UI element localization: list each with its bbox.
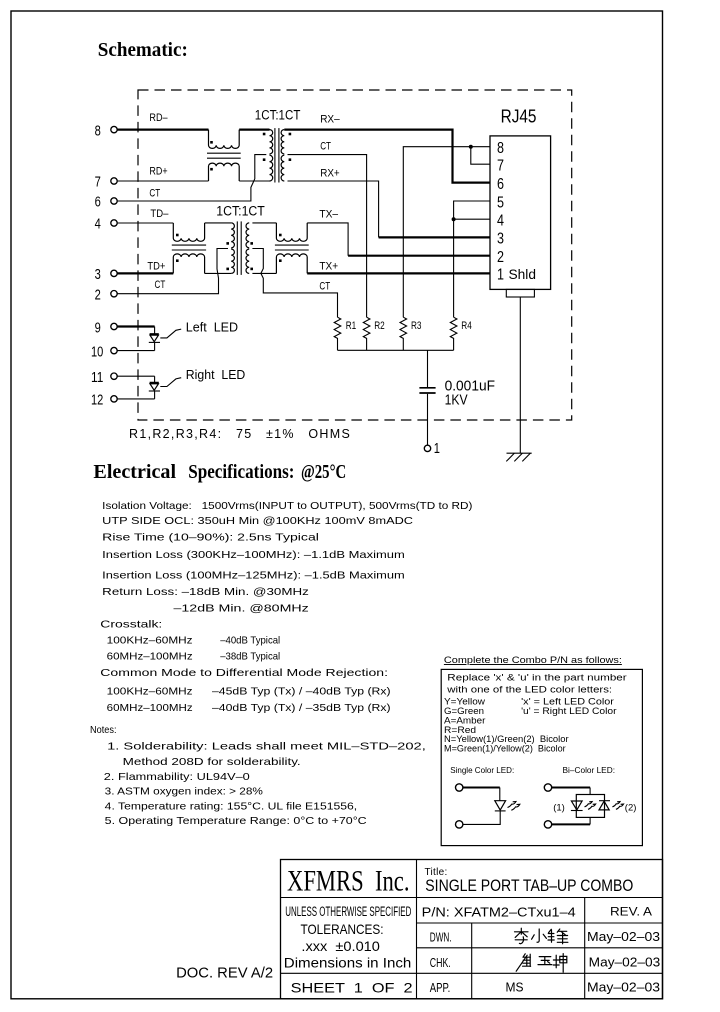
- junction dot pins7-8: [469, 145, 473, 149]
- svg-text:CT: CT: [319, 280, 330, 292]
- svg-text:R4: R4: [461, 320, 472, 332]
- CHK row: [430, 955, 660, 970]
- svg-text:P/N: XFATM2–CTxu1–4: P/N: XFATM2–CTxu1–4: [422, 905, 576, 920]
- svg-text:–12dB Min. @80MHz: –12dB Min. @80MHz: [174, 604, 309, 615]
- wire TD+ pin3 to choke T3: [117, 272, 173, 274]
- pin 9: [95, 321, 118, 337]
- junction dot pins4-5: [452, 217, 456, 221]
- svg-text:RX–: RX–: [320, 113, 340, 125]
- svg-text:2. Flammability: UL94V–0: 2. Flammability: UL94V–0: [104, 772, 250, 783]
- wire T4 secondary CT to R1 column (with crossover jog): [252, 249, 337, 318]
- LED D2 Right LED: [149, 376, 160, 399]
- svg-text:Specifications:: Specifications:: [188, 461, 294, 483]
- common-mode choke T3 (TX) core: [172, 245, 206, 250]
- resistor R3 75 ohm: [400, 317, 422, 350]
- wire pin6 CT to T2 primary centre tap (with crossover jog): [117, 155, 266, 201]
- svg-text:R3: R3: [411, 320, 422, 332]
- common-mode choke T3 (TX) upper winding: [173, 223, 204, 241]
- svg-text:SINGLE PORT TAB–UP COMBO: SINGLE PORT TAB–UP COMBO: [425, 876, 633, 895]
- resistor R4 75 ohm: [450, 317, 472, 350]
- svg-text:(1): (1): [553, 802, 565, 813]
- wire RX- : T2 secondary top to RJ45 pin6: [284, 130, 490, 183]
- svg-text:CHK.: CHK.: [430, 956, 451, 970]
- svg-text:–40dB Typ (Tx) / –35dB Typ (Rx: –40dB Typ (Tx) / –35dB Typ (Rx): [212, 703, 391, 714]
- svg-text:REV. A: REV. A: [610, 904, 652, 918]
- svg-text:TD–: TD–: [150, 208, 169, 220]
- svg-text:UTP SIDE OCL: 350uH Min @100KH: UTP SIDE OCL: 350uH Min @100KHz 100mV 8m…: [102, 516, 413, 527]
- RJ45 connector J1 body: [490, 136, 551, 290]
- wire choke T1 to transformer T2 primary top: [239, 129, 269, 131]
- svg-text:R2: R2: [374, 320, 385, 332]
- resistor R1 75 ohm: [334, 317, 356, 350]
- svg-text:8: 8: [497, 140, 504, 157]
- chassis ground symbol: [506, 453, 531, 461]
- svg-text:7: 7: [95, 175, 101, 191]
- svg-text:1: 1: [497, 267, 504, 284]
- svg-text:RX+: RX+: [320, 168, 340, 180]
- wire shield to chassis ground: [519, 297, 521, 453]
- svg-text:4: 4: [95, 217, 101, 233]
- terminal node 1: [424, 441, 440, 457]
- svg-text:Return Loss: –18dB Min. @30MHz: Return Loss: –18dB Min. @30MHz: [102, 587, 309, 598]
- svg-text:R1: R1: [346, 320, 357, 332]
- wire pin11 to Right LED anode: [117, 375, 154, 377]
- svg-text:APP.: APP.: [430, 981, 451, 995]
- wire T4 secondary top to output choke T5: [252, 222, 276, 224]
- transformer T2 (RX) 1CT:1CT secondary winding: [281, 130, 284, 181]
- svg-text:1CT:1CT: 1CT:1CT: [255, 107, 301, 122]
- svg-text:5: 5: [497, 194, 504, 211]
- svg-text:100KHz–60MHz: 100KHz–60MHz: [107, 687, 193, 698]
- svg-text:May–02–03: May–02–03: [589, 955, 661, 969]
- svg-text:Left LED: Left LED: [186, 320, 238, 335]
- svg-text:4. Temperature rating: 155°C.: 4. Temperature rating: 155°C. UL file E1…: [105, 801, 358, 812]
- wire RX+ : T2 secondary bottom to RJ45 pin3: [288, 181, 379, 237]
- svg-text:May–02–03: May–02–03: [587, 930, 660, 944]
- svg-text:Insertion Loss (100MHz–125MHz): Insertion Loss (100MHz–125MHz): –1.5dB M…: [102, 571, 405, 582]
- svg-text:Schematic:: Schematic:: [98, 39, 188, 61]
- svg-text:RD+: RD+: [149, 165, 167, 177]
- module boundary dashed box: [138, 90, 572, 420]
- svg-text:Bi–Color LED:: Bi–Color LED:: [563, 765, 616, 775]
- svg-text:10: 10: [91, 344, 103, 360]
- wire RD+ pin7 to choke T1: [117, 180, 208, 182]
- svg-text:3. ASTM oxygen index: > 28%: 3. ASTM oxygen index: > 28%: [105, 787, 263, 798]
- svg-text:2: 2: [95, 287, 101, 303]
- svg-text:Method 208D for solderability.: Method 208D for solderability.: [123, 757, 301, 768]
- svg-text:100KHz–60MHz: 100KHz–60MHz: [107, 636, 193, 647]
- svg-text:60MHz–100MHz: 60MHz–100MHz: [107, 703, 193, 714]
- svg-text:XFMRS Inc.: XFMRS Inc.: [287, 865, 410, 898]
- svg-text:9: 9: [95, 321, 101, 337]
- transformer T4 (TX) 1CT:1CT primary winding: [231, 223, 234, 274]
- svg-text:4: 4: [497, 213, 504, 230]
- P/N row: [422, 904, 652, 919]
- svg-text:Common Mode to Differential Mo: Common Mode to Differential Mode Rejecti…: [100, 668, 388, 679]
- common-mode choke T1 (RX) lower winding: [209, 163, 240, 181]
- svg-text:1. Solderability: Leads shall: 1. Solderability: Leads shall meet MIL–S…: [107, 741, 426, 752]
- pin 7: [95, 175, 118, 191]
- transformer T2 (RX) 1CT:1CT core: [275, 128, 279, 182]
- wire pin2 CT to T4 primary centre tap (with crossover jog): [117, 249, 228, 294]
- svg-text:DWN.: DWN.: [430, 931, 452, 945]
- pin 12: [91, 393, 117, 409]
- svg-text:CT: CT: [320, 141, 331, 153]
- svg-text:Shld: Shld: [509, 266, 537, 282]
- svg-text:1CT:1CT: 1CT:1CT: [216, 204, 264, 219]
- svg-text:Single Color LED:: Single Color LED:: [450, 765, 514, 775]
- wire RX secondary CT to R2 column: [288, 155, 367, 318]
- common-mode choke T3 (TX) lower winding: [173, 254, 204, 274]
- svg-text:RD–: RD–: [149, 112, 168, 124]
- svg-text:Y=Yellow: Y=Yellow: [444, 697, 486, 707]
- common-mode choke T5 (TX output) lower winding: [276, 254, 307, 274]
- svg-text:6: 6: [497, 176, 504, 193]
- common-mode choke T1 (RX) polarity dots: [210, 141, 213, 171]
- signature DWN (Chinese): [515, 928, 568, 944]
- svg-text:UNLESS OTHERWISE SPECIFIED: UNLESS OTHERWISE SPECIFIED: [285, 904, 411, 919]
- svg-text:Electrical: Electrical: [93, 461, 176, 483]
- wire R3 column to RJ45 pins 7 and 8: [403, 147, 490, 318]
- svg-text:RJ45: RJ45: [501, 106, 537, 126]
- wire T4 secondary bottom to output choke T5: [252, 272, 276, 274]
- APP row: [430, 981, 660, 996]
- svg-text:1: 1: [434, 441, 440, 457]
- svg-text:12: 12: [91, 393, 103, 409]
- pin 11: [91, 370, 117, 386]
- capacitor C1 0.001uF 1KV: [419, 350, 435, 445]
- electrical specification text: [100, 501, 472, 714]
- svg-text:CT: CT: [155, 279, 166, 291]
- svg-text:SHEET 1 OF 2: SHEET 1 OF 2: [291, 980, 413, 996]
- wire TX- : choke T5 to RJ45 pin2: [307, 223, 348, 256]
- svg-text:M=Green(1)/Yellow(2) Bicolor: M=Green(1)/Yellow(2) Bicolor: [444, 744, 566, 754]
- wire pin9 to Left LED anode: [117, 325, 154, 327]
- svg-text:Isolation Voltage: 1500Vrms(: Isolation Voltage: 1500Vrms(INPUT to OUT…: [102, 501, 472, 512]
- svg-text:.xxx ±0.010: .xxx ±0.010: [301, 938, 380, 954]
- wire choke T1 to transformer T2 primary bottom: [239, 180, 269, 182]
- svg-text:6: 6: [95, 195, 101, 211]
- svg-text:11: 11: [91, 370, 103, 386]
- common-mode choke T5 (TX output) upper winding: [276, 223, 307, 241]
- svg-text:Notes:: Notes:: [90, 725, 117, 736]
- wire R4 column to RJ45 pins 4 and 5: [454, 201, 490, 317]
- svg-text:(2): (2): [625, 802, 637, 813]
- svg-text:Dimensions in Inch: Dimensions in Inch: [284, 955, 412, 971]
- title block frame: [281, 860, 663, 999]
- svg-text:TX–: TX–: [319, 208, 339, 220]
- transformer T4 (TX) 1CT:1CT polarity dots: [226, 242, 253, 270]
- bi-color LED symbol: [544, 784, 636, 828]
- RJ45 shield tab: [506, 289, 534, 297]
- pin 6: [95, 195, 118, 211]
- svg-text:Rise Time (10–90%): 2.5ns Typi: Rise Time (10–90%): 2.5ns Typical: [102, 532, 319, 543]
- title block left column text: [284, 904, 413, 996]
- transformer T2 (RX) 1CT:1CT polarity dots: [263, 133, 291, 161]
- svg-text:@25°C: @25°C: [301, 461, 346, 483]
- svg-text:CT: CT: [149, 188, 160, 200]
- pin 4: [95, 217, 118, 233]
- transformer T4 (TX) 1CT:1CT core: [237, 221, 241, 275]
- combo P/N instruction box: [441, 655, 642, 846]
- common-mode choke T5 (TX output) polarity dots: [279, 234, 282, 262]
- svg-text:Crosstalk:: Crosstalk:: [100, 620, 162, 631]
- leader line Right LED: [160, 378, 181, 387]
- svg-text:'x' = Left LED Color: 'x' = Left LED Color: [521, 697, 614, 707]
- common-mode choke T3 (TX) polarity dots: [176, 234, 179, 262]
- LED D1 Left LED: [149, 327, 160, 351]
- combo box text: [444, 673, 628, 775]
- pin 3: [95, 267, 118, 283]
- wire resistor common node: [338, 349, 454, 351]
- svg-text:–38dB Typical: –38dB Typical: [220, 652, 280, 663]
- pin 8: [95, 123, 118, 139]
- svg-text:TX+: TX+: [319, 261, 338, 273]
- pin 2: [95, 287, 118, 303]
- wire Left LED cathode to pin10: [117, 350, 154, 352]
- svg-text:R1,R2,R3,R4: 75 ±1% OHMS: R1,R2,R3,R4: 75 ±1% OHMS: [129, 427, 351, 441]
- wire choke T3 to transformer T4 primary bottom: [205, 272, 232, 274]
- svg-text:3: 3: [95, 267, 101, 283]
- wire Right LED cathode to pin12: [117, 398, 154, 400]
- transformer T4 (TX) 1CT:1CT secondary winding: [246, 223, 249, 274]
- wire choke T3 to transformer T4 primary top: [205, 222, 232, 224]
- svg-text:1KV: 1KV: [445, 392, 468, 409]
- svg-text:–45dB Typ (Tx) / –40dB Typ (Rx: –45dB Typ (Tx) / –40dB Typ (Rx): [212, 687, 391, 698]
- leader line Left LED: [160, 329, 181, 338]
- title text: [425, 867, 634, 895]
- svg-text:Right LED: Right LED: [186, 367, 246, 382]
- svg-text:MS: MS: [506, 981, 524, 995]
- common-mode choke T1 (RX) core: [207, 153, 241, 158]
- signature CHK (Chinese): [516, 954, 567, 973]
- svg-text:7: 7: [497, 158, 504, 175]
- wire RD- pin8 to choke T1: [117, 129, 208, 131]
- heading Electrical Specifications: [93, 461, 346, 483]
- single color LED symbol: [456, 784, 520, 828]
- svg-text:TOLERANCES:: TOLERANCES:: [301, 921, 384, 937]
- svg-text:with one of the LED color lett: with one of the LED color letters:: [446, 684, 612, 695]
- common-mode choke T1 (RX) upper winding: [209, 130, 240, 149]
- svg-text:60MHz–100MHz: 60MHz–100MHz: [107, 652, 193, 663]
- svg-text:–40dB Typical: –40dB Typical: [220, 636, 280, 647]
- svg-text:DOC. REV A/2: DOC. REV A/2: [176, 965, 273, 982]
- wire TX+ : choke T5 to RJ45 pin1: [307, 272, 490, 274]
- transformer T2 (RX) 1CT:1CT primary winding: [270, 130, 273, 181]
- svg-text:Replace 'x' & 'u' in the part: Replace 'x' & 'u' in the part number: [447, 673, 627, 684]
- svg-text:5. Operating Temperature Range: 5. Operating Temperature Range: 0°C to +…: [105, 816, 368, 827]
- svg-text:2: 2: [497, 249, 504, 266]
- resistor R2 75 ohm: [363, 317, 384, 350]
- common-mode choke T5 (TX output) core: [275, 245, 309, 250]
- pin 10: [91, 344, 117, 360]
- svg-text:TD+: TD+: [147, 261, 165, 273]
- DWN row: [430, 930, 660, 945]
- wire TD- pin4 to choke T3: [117, 222, 173, 224]
- svg-text:3: 3: [497, 231, 504, 248]
- svg-text:'u' = Right LED Color: 'u' = Right LED Color: [521, 706, 616, 716]
- svg-text:8: 8: [95, 123, 101, 139]
- notes text: [90, 725, 426, 827]
- svg-text:May–02–03: May–02–03: [587, 981, 660, 995]
- svg-text:Insertion Loss (300KHz–100MHz): Insertion Loss (300KHz–100MHz): –1.1dB M…: [102, 550, 405, 561]
- svg-text:Complete the Combo P/N as foll: Complete the Combo P/N as follows:: [444, 655, 622, 666]
